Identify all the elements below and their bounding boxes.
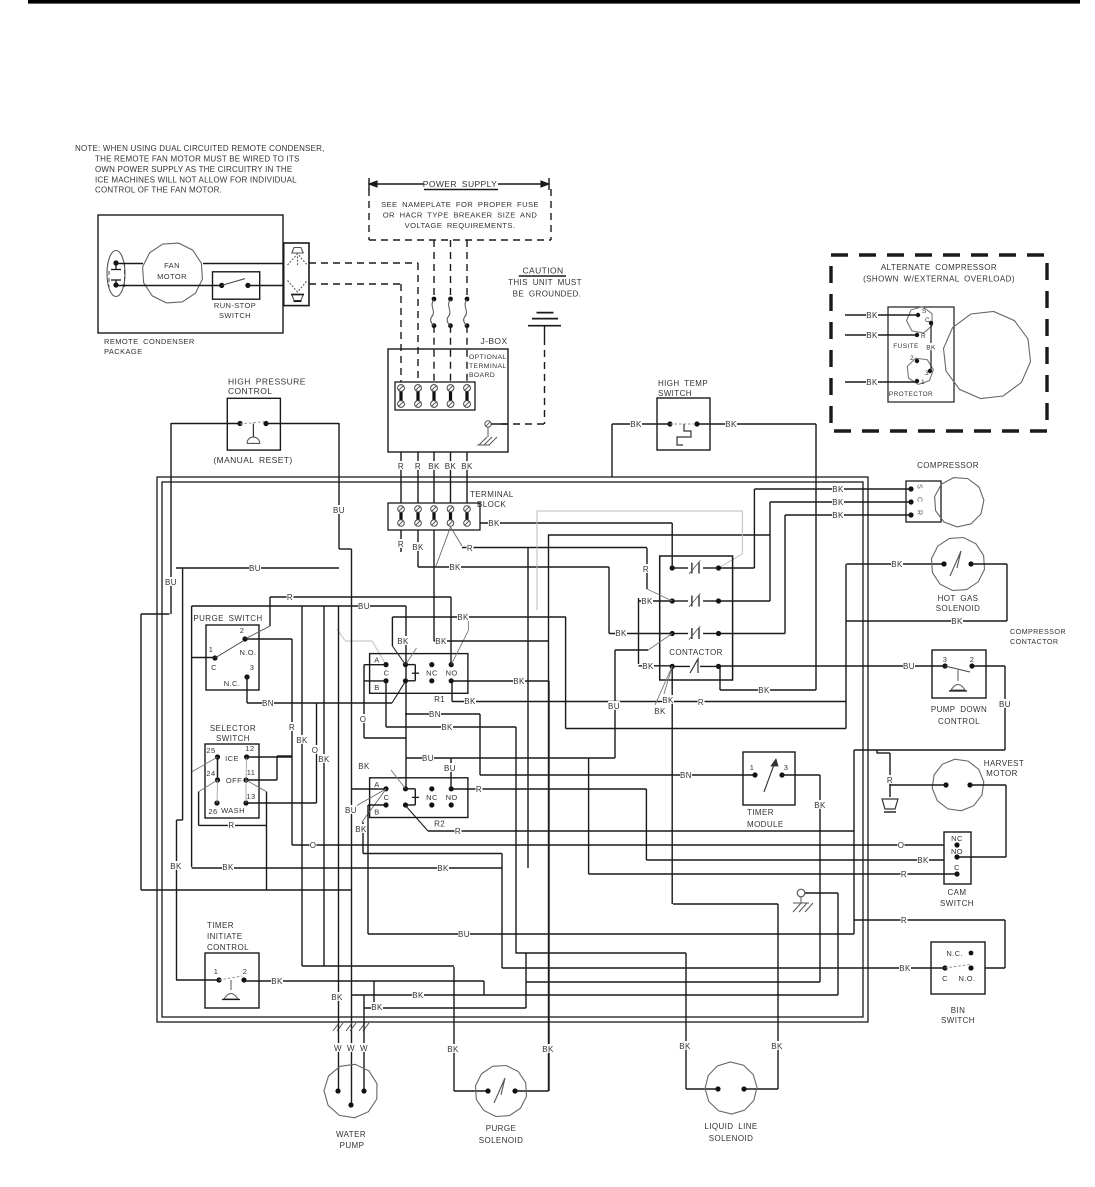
svg-text:THE REMOTE FAN MOTOR MUST: THE REMOTE FAN MOTOR MUST BE WIRED TO IT…: [95, 155, 300, 164]
svg-text:PUMP DOWN: PUMP DOWN: [931, 705, 987, 714]
svg-text:CONTROL OF THE FAN MOTOR.: CONTROL OF THE FAN MOTOR.: [95, 186, 222, 195]
svg-text:BOARD: BOARD: [469, 372, 495, 379]
svg-text:S: S: [922, 308, 927, 315]
svg-text:THIS UNIT MUST: THIS UNIT MUST: [508, 278, 582, 287]
svg-text:BK: BK: [358, 762, 370, 771]
svg-text:BK: BK: [222, 863, 234, 872]
svg-text:13: 13: [246, 792, 255, 801]
svg-text:CONTACTOR: CONTACTOR: [1010, 637, 1058, 646]
svg-text:NC: NC: [951, 834, 963, 843]
svg-text:BK: BK: [951, 617, 963, 626]
svg-text:OR HACR TYPE BREAKER SIZE AND: OR HACR TYPE BREAKER SIZE AND: [383, 211, 538, 220]
svg-text:R: R: [476, 785, 482, 794]
svg-text:BK: BK: [441, 723, 453, 732]
svg-text:N.O.: N.O.: [958, 974, 975, 983]
svg-text:BU: BU: [358, 602, 370, 611]
svg-text:BK: BK: [355, 825, 367, 834]
svg-text:BU: BU: [999, 700, 1011, 709]
svg-text:2: 2: [970, 655, 975, 664]
svg-text:SWITCH: SWITCH: [940, 899, 974, 908]
svg-text:CONTACTOR: CONTACTOR: [669, 648, 723, 657]
svg-text:BK: BK: [758, 686, 770, 695]
svg-text:S: S: [916, 484, 923, 489]
svg-text:O: O: [312, 746, 319, 755]
svg-text:11: 11: [247, 768, 256, 777]
svg-text:REMOTE CONDENSER: REMOTE CONDENSER: [104, 337, 195, 346]
svg-text:C: C: [916, 497, 923, 502]
svg-text:BK: BK: [899, 964, 911, 973]
svg-text:BK: BK: [397, 637, 409, 646]
svg-text:PROTECTOR: PROTECTOR: [889, 391, 933, 398]
svg-text:LIQUID LINE: LIQUID LINE: [704, 1122, 757, 1131]
svg-text:TIMER: TIMER: [747, 808, 774, 817]
svg-text:N.C.: N.C.: [946, 949, 963, 958]
svg-text:R: R: [228, 821, 234, 830]
svg-text:B: B: [374, 807, 379, 816]
svg-text:BK: BK: [445, 462, 457, 471]
svg-text:BN: BN: [262, 699, 274, 708]
svg-text:ALTERNATE COMPRESSOR: ALTERNATE COMPRESSOR: [881, 263, 997, 272]
svg-text:C: C: [384, 793, 390, 802]
svg-text:BK: BK: [461, 462, 473, 471]
svg-text:1: 1: [921, 379, 925, 386]
svg-text:BK: BK: [615, 629, 627, 638]
svg-text:2: 2: [910, 355, 914, 362]
svg-text:BU: BU: [165, 578, 177, 587]
svg-text:BK: BK: [771, 1042, 783, 1051]
svg-text:N.C.: N.C.: [224, 679, 241, 688]
svg-text:COMPRESSOR: COMPRESSOR: [1010, 627, 1066, 636]
svg-text:HARVEST: HARVEST: [984, 759, 1024, 768]
svg-text:BK: BK: [437, 864, 449, 873]
svg-text:R: R: [289, 723, 295, 732]
svg-text:SWITCH: SWITCH: [658, 389, 692, 398]
svg-text:O: O: [898, 841, 905, 850]
svg-text:FUSITE: FUSITE: [893, 343, 919, 350]
svg-text:R: R: [287, 593, 293, 602]
svg-text:BU: BU: [422, 754, 434, 763]
svg-text:OWN POWER SUPPLY AS THE C: OWN POWER SUPPLY AS THE CIRCUITRY IN THE: [95, 165, 292, 174]
svg-text:CONTROL: CONTROL: [938, 717, 980, 726]
svg-text:BK: BK: [891, 560, 903, 569]
svg-text:C: C: [925, 317, 930, 324]
svg-text:W: W: [347, 1044, 355, 1053]
svg-text:B: B: [374, 683, 379, 692]
svg-text:BK: BK: [457, 613, 469, 622]
svg-text:A: A: [374, 780, 379, 789]
svg-text:BK: BK: [866, 378, 878, 387]
svg-text:J-BOX: J-BOX: [480, 336, 507, 346]
svg-text:BU: BU: [608, 702, 620, 711]
svg-text:BK: BK: [832, 498, 844, 507]
svg-text:R2: R2: [434, 819, 445, 828]
svg-text:BK: BK: [642, 662, 654, 671]
svg-text:3: 3: [784, 763, 789, 772]
svg-text:BK: BK: [814, 801, 826, 810]
svg-text:HOT GAS: HOT GAS: [938, 594, 979, 603]
svg-text:BK: BK: [464, 697, 476, 706]
svg-text:R: R: [921, 333, 926, 340]
svg-text:PURGE: PURGE: [486, 1124, 516, 1133]
svg-text:BU: BU: [345, 806, 357, 815]
svg-text:FAN: FAN: [164, 261, 180, 270]
svg-text:BU: BU: [444, 764, 456, 773]
svg-text:1: 1: [214, 967, 219, 976]
svg-text:BK: BK: [832, 511, 844, 520]
svg-text:BE GROUNDED.: BE GROUNDED.: [513, 290, 582, 299]
svg-text:BU: BU: [333, 506, 345, 515]
svg-text:R: R: [398, 462, 404, 471]
svg-text:OPTIONAL: OPTIONAL: [469, 354, 507, 361]
svg-text:SEE NAMEPLATE FOR PROPER FUSE: SEE NAMEPLATE FOR PROPER FUSE: [381, 200, 539, 209]
svg-text:12: 12: [245, 744, 254, 753]
svg-text:NOTE: WHEN USING DUAL CIRC: NOTE: WHEN USING DUAL CIRCUITED REMOTE C…: [75, 144, 325, 153]
svg-text:3: 3: [250, 663, 255, 672]
svg-text:BIN: BIN: [951, 1006, 966, 1015]
svg-text:BU: BU: [903, 662, 915, 671]
svg-text:BK: BK: [428, 462, 440, 471]
svg-text:O: O: [310, 841, 317, 850]
svg-text:CONTROL: CONTROL: [207, 943, 249, 952]
svg-text:R: R: [901, 916, 907, 925]
svg-text:NC: NC: [426, 669, 438, 678]
svg-text:NO: NO: [446, 793, 458, 802]
svg-text:PUMP: PUMP: [340, 1141, 365, 1150]
svg-text:SWITCH: SWITCH: [219, 311, 251, 320]
svg-text:BK: BK: [866, 311, 878, 320]
svg-text:CONTROL: CONTROL: [228, 386, 272, 396]
svg-text:BK: BK: [412, 543, 424, 552]
svg-text:INITIATE: INITIATE: [207, 932, 243, 941]
svg-text:(MANUAL RESET): (MANUAL RESET): [213, 455, 292, 465]
svg-text:MOTOR: MOTOR: [157, 272, 187, 281]
svg-text:R: R: [398, 540, 404, 549]
svg-text:POWER SUPPLY: POWER SUPPLY: [423, 179, 497, 189]
svg-text:BK: BK: [917, 856, 929, 865]
svg-text:BU: BU: [249, 564, 261, 573]
svg-text:BK: BK: [662, 696, 674, 705]
svg-text:C: C: [384, 669, 390, 678]
svg-text:26: 26: [208, 807, 217, 816]
svg-text:CAUTION: CAUTION: [522, 266, 563, 276]
svg-text:BK: BK: [513, 677, 525, 686]
svg-text:WATER: WATER: [336, 1130, 366, 1139]
svg-text:BLOCK: BLOCK: [477, 500, 506, 509]
svg-text:OFF: OFF: [226, 776, 242, 785]
svg-text:W: W: [334, 1044, 342, 1053]
svg-text:3: 3: [925, 370, 929, 377]
svg-text:NC: NC: [426, 793, 438, 802]
svg-text:R: R: [698, 698, 704, 707]
svg-text:BK: BK: [371, 1003, 383, 1012]
svg-text:MOTOR: MOTOR: [986, 769, 1018, 778]
svg-text:SELECTOR: SELECTOR: [210, 724, 256, 733]
svg-text:BN: BN: [429, 710, 441, 719]
svg-text:HIGH PRESSURE: HIGH PRESSURE: [228, 377, 306, 387]
svg-text:C: C: [954, 863, 960, 872]
svg-text:SOLENOID: SOLENOID: [709, 1134, 754, 1143]
svg-text:MODULE: MODULE: [747, 820, 784, 829]
svg-text:BN: BN: [680, 771, 692, 780]
svg-text:1: 1: [209, 645, 214, 654]
svg-text:PURGE SWITCH: PURGE SWITCH: [193, 614, 262, 623]
svg-text:SOLENOID: SOLENOID: [479, 1136, 524, 1145]
svg-text:R: R: [887, 776, 893, 785]
svg-text:R: R: [467, 544, 473, 553]
svg-text:CAM: CAM: [948, 888, 967, 897]
svg-text:O: O: [360, 715, 367, 724]
svg-text:TERMINAL: TERMINAL: [469, 363, 507, 370]
svg-text:R1: R1: [434, 695, 445, 704]
svg-text:BK: BK: [435, 637, 447, 646]
svg-text:BK: BK: [866, 331, 878, 340]
svg-text:ICE: ICE: [225, 754, 239, 763]
svg-text:BK: BK: [832, 485, 844, 494]
svg-text:BK: BK: [318, 755, 330, 764]
svg-text:BK: BK: [725, 420, 737, 429]
svg-text:R: R: [643, 565, 649, 574]
svg-text:BK: BK: [447, 1045, 459, 1054]
svg-text:WASH: WASH: [221, 806, 245, 815]
svg-text:TIMER: TIMER: [207, 921, 234, 930]
svg-text:COMPRESSOR: COMPRESSOR: [917, 461, 979, 470]
svg-text:(SHOWN W/EXTERNAL OVERLOAD): (SHOWN W/EXTERNAL OVERLOAD): [863, 275, 1015, 284]
svg-text:BK: BK: [679, 1042, 691, 1051]
svg-text:BK: BK: [449, 563, 461, 572]
svg-text:BK: BK: [542, 1045, 554, 1054]
svg-text:SOLENOID: SOLENOID: [936, 604, 981, 613]
svg-text:R: R: [455, 827, 461, 836]
svg-text:HIGH TEMP: HIGH TEMP: [658, 379, 708, 388]
svg-text:RUN-STOP: RUN-STOP: [214, 301, 256, 310]
svg-text:2: 2: [240, 626, 245, 635]
svg-text:NO: NO: [951, 847, 963, 856]
svg-text:BK: BK: [331, 993, 343, 1002]
svg-text:BK: BK: [296, 736, 308, 745]
svg-text:A: A: [374, 656, 379, 665]
svg-text:2: 2: [243, 967, 248, 976]
svg-text:BK: BK: [271, 977, 283, 986]
svg-text:C: C: [211, 663, 217, 672]
svg-text:PACKAGE: PACKAGE: [104, 347, 143, 356]
svg-text:R: R: [901, 870, 907, 879]
svg-text:BK: BK: [641, 597, 653, 606]
svg-text:24: 24: [206, 769, 215, 778]
svg-text:ICE MACHINES WILL NOT ALLO: ICE MACHINES WILL NOT ALLOW FOR INDIVIDU…: [95, 175, 297, 184]
svg-text:1: 1: [750, 763, 755, 772]
svg-text:VOLTAGE REQUIREMENTS.: VOLTAGE REQUIREMENTS.: [405, 221, 516, 230]
svg-text:W: W: [360, 1044, 368, 1053]
svg-text:25: 25: [206, 746, 215, 755]
svg-text:C: C: [942, 974, 948, 983]
svg-text:R: R: [916, 510, 923, 515]
svg-text:BK: BK: [654, 707, 666, 716]
svg-text:SWITCH: SWITCH: [941, 1016, 975, 1025]
svg-text:BK: BK: [630, 420, 642, 429]
svg-text:NO: NO: [446, 669, 458, 678]
svg-text:3: 3: [943, 655, 948, 664]
svg-text:BK: BK: [488, 519, 500, 528]
svg-text:R: R: [415, 462, 421, 471]
svg-text:N.O.: N.O.: [239, 648, 256, 657]
svg-text:BU: BU: [458, 930, 470, 939]
svg-text:BK: BK: [170, 862, 182, 871]
svg-text:BK: BK: [926, 344, 936, 351]
svg-text:SWITCH: SWITCH: [216, 734, 250, 743]
svg-text:TERMINAL: TERMINAL: [470, 490, 514, 499]
svg-text:BK: BK: [412, 991, 424, 1000]
